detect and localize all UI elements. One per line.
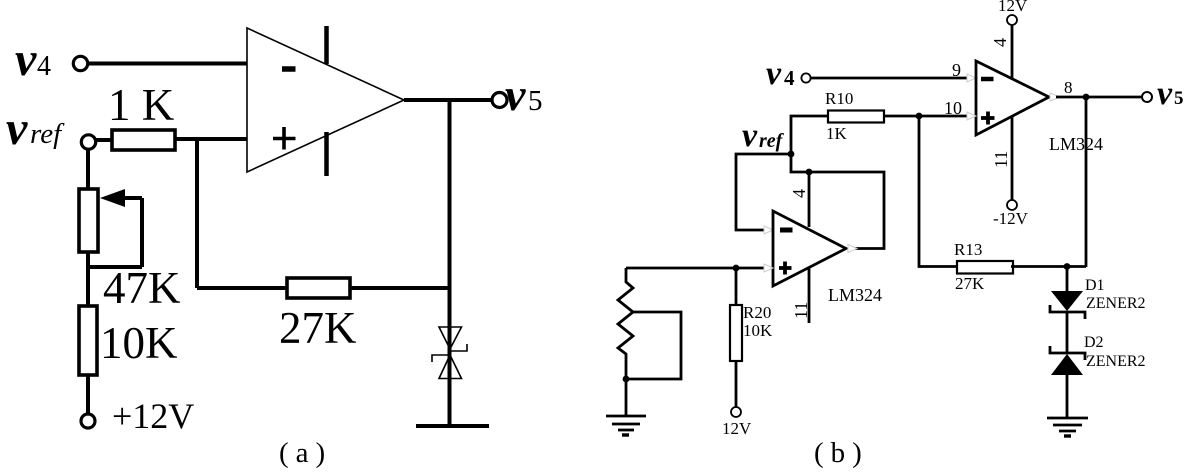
svg-text:v: v [766,55,782,92]
svg-text:v: v [6,102,28,155]
potentiometer 47K body [79,189,98,252]
svg-text:47K: 47K [103,263,181,313]
svg-text:ZENER2: ZENER2 [1086,295,1146,312]
resistor R10 [828,111,884,123]
svg-text:4: 4 [37,51,51,82]
wire output to v5 [1056,96,1142,99]
plus symbol b1 [981,112,995,125]
svg-text:+12V: +12V [112,396,194,436]
wire R10 left to vref [791,116,828,154]
terminal v4 [73,56,87,70]
power tick top [324,26,329,64]
pot wiper arrow [88,189,142,267]
pin 11 wire op2 [808,267,811,323]
wire to D1 [1066,267,1069,292]
terminal 12V bottom [731,407,741,417]
pot wiper loop [626,312,681,379]
input arrow plus op2 [764,264,773,272]
diode D1 zener [1050,291,1085,319]
svg-text:v: v [742,117,758,154]
plus symbol b2 [779,262,792,275]
svg-text:ref: ref [30,118,65,150]
minus symbol b2 [780,228,793,233]
ground bar [416,424,489,428]
wire vref down to pot [86,149,90,190]
svg-text:12V: 12V [722,419,752,438]
wire node down to R13 [919,116,956,267]
input arrow pin9 [967,74,976,82]
svg-text:11: 11 [991,151,1011,168]
pin 4 wire op2 [808,172,811,227]
svg-text:v: v [15,33,37,86]
diode D2 zener [1050,346,1085,375]
wire 27K to output column [350,286,450,290]
minus symbol b1 [981,77,994,82]
svg-text:R20: R20 [743,303,771,322]
svg-text:10: 10 [944,98,962,118]
wire output column down [448,100,452,426]
svg-text:LM324: LM324 [828,285,882,305]
svg-text:v: v [505,69,526,120]
svg-text:R13: R13 [954,240,982,259]
output arrow pin8 [1050,93,1060,101]
wire v4 to op-amp [88,62,247,66]
terminal -12V [1007,200,1017,210]
node v4 label [15,33,51,86]
svg-text:27K: 27K [279,303,357,353]
power tick bottom [324,132,329,176]
ground symbol left [606,416,646,435]
svg-text:v: v [1157,75,1173,112]
plus symbol [273,127,296,150]
node vref label [6,102,65,155]
op-amp U2B LM324 [773,211,846,286]
terminal 12V [1007,15,1017,25]
wire R13 right [1011,265,1086,268]
wire R20 bottom [735,361,738,407]
wire feedback node down [195,139,199,288]
svg-text:R10: R10 [825,89,853,108]
svg-text:9: 9 [952,60,961,80]
svg-text:1K: 1K [826,124,848,143]
svg-text:D1: D1 [1085,277,1105,294]
wire pot to ground [625,379,628,416]
junction dot D1 node [1064,263,1071,270]
wire vref left and down to minus input [736,154,791,230]
junction dot vref [788,151,795,158]
svg-text:10K: 10K [100,318,178,368]
junction dot R20 top [733,265,740,272]
wire R10 right to pin10 [884,115,968,118]
svg-text:(a): (a) [279,437,332,469]
svg-text:11: 11 [791,302,811,319]
input arrow minus op2 [764,226,773,234]
op-amp U1 [247,28,404,172]
svg-text:12V: 12V [998,0,1028,15]
node v4 label b [766,55,795,92]
junction dot pin8 [1083,94,1090,101]
wire 10K to +12V [86,375,90,414]
svg-text:5: 5 [1174,88,1184,109]
wire pot to 10K [86,252,90,306]
junction dot pot bottom [623,376,630,383]
svg-text:(b): (b) [814,437,869,469]
wire 1K to op-amp plus [175,137,247,141]
junction dot pin4 node [806,169,813,176]
svg-text:ZENER2: ZENER2 [1086,353,1146,370]
resistor 27K [287,278,350,298]
wire R20 top [735,268,738,305]
node vref label b [742,117,785,154]
wire vref step to feedback [791,154,884,249]
node v5 label b [1157,75,1184,112]
wire vref to R 1K [95,138,112,142]
ground symbol right [1047,418,1088,436]
potentiometer zigzag [618,268,681,379]
svg-text:ref: ref [759,130,785,152]
svg-text:4: 4 [990,38,1010,47]
wire plus input from pot [626,267,766,270]
minus symbol [282,66,296,72]
output arrow op2 [848,245,857,253]
node v5 label [505,69,543,120]
wire pin8 column down [1085,97,1088,267]
terminal v4 b [801,73,810,82]
svg-text:4: 4 [789,189,809,198]
wire to 27K [197,286,287,290]
terminal v5 b [1142,92,1152,102]
svg-text:5: 5 [528,85,543,117]
terminal v5 [492,93,507,108]
wire D2 to ground [1066,375,1069,418]
zener pair bidirectional [432,327,467,379]
terminal +12V [81,414,95,428]
svg-text:8: 8 [1064,78,1073,97]
input arrow pin10 [967,112,976,120]
pin 11 power wire [1011,116,1014,200]
op-amp U2A LM324 [976,61,1049,135]
svg-text:27K: 27K [955,274,985,293]
wire D1 to D2 [1066,312,1069,353]
svg-text:4: 4 [784,66,795,90]
terminal vref [81,135,95,149]
svg-text:10K: 10K [743,321,773,340]
resistor 10K [79,306,97,375]
svg-text:D2: D2 [1084,334,1104,351]
wire op-amp output [404,98,493,102]
svg-text:-12V: -12V [993,209,1029,228]
wire v4 to pin9 [811,77,968,80]
resistor R20 [730,305,742,361]
junction dot R10 node [916,113,923,120]
resistor R13 [957,261,1013,274]
svg-text:1 K: 1 K [108,80,175,130]
resistor 1K [112,130,175,150]
svg-text:LM324: LM324 [1049,134,1103,154]
pin 4 power wire [1011,25,1014,78]
